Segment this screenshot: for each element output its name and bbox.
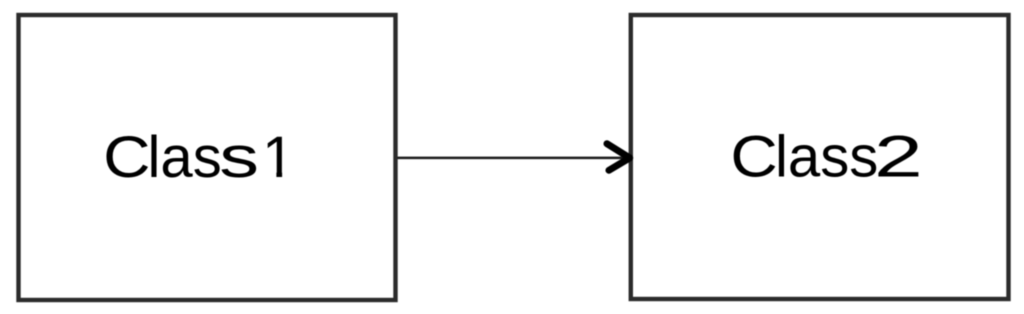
class box Class1 <box>19 15 396 300</box>
svg-text:1: 1 <box>262 125 294 190</box>
svg-text:las: las <box>148 125 222 190</box>
arrowhead open <box>607 144 630 171</box>
wire arrow shaft Class1 to Class2 <box>398 157 630 160</box>
svg-text:2: 2 <box>874 124 923 189</box>
svg-text:C: C <box>103 125 150 190</box>
class box Class2 <box>631 15 1009 299</box>
svg-text:s: s <box>219 124 259 189</box>
svg-text:C: C <box>730 125 777 190</box>
svg-text:lass: lass <box>775 125 878 190</box>
white patch to remove foot bar of digit 1 (left of stem) <box>263 171 276 179</box>
white patch to remove foot bar of digit 1 (right of stem) <box>282 171 293 179</box>
